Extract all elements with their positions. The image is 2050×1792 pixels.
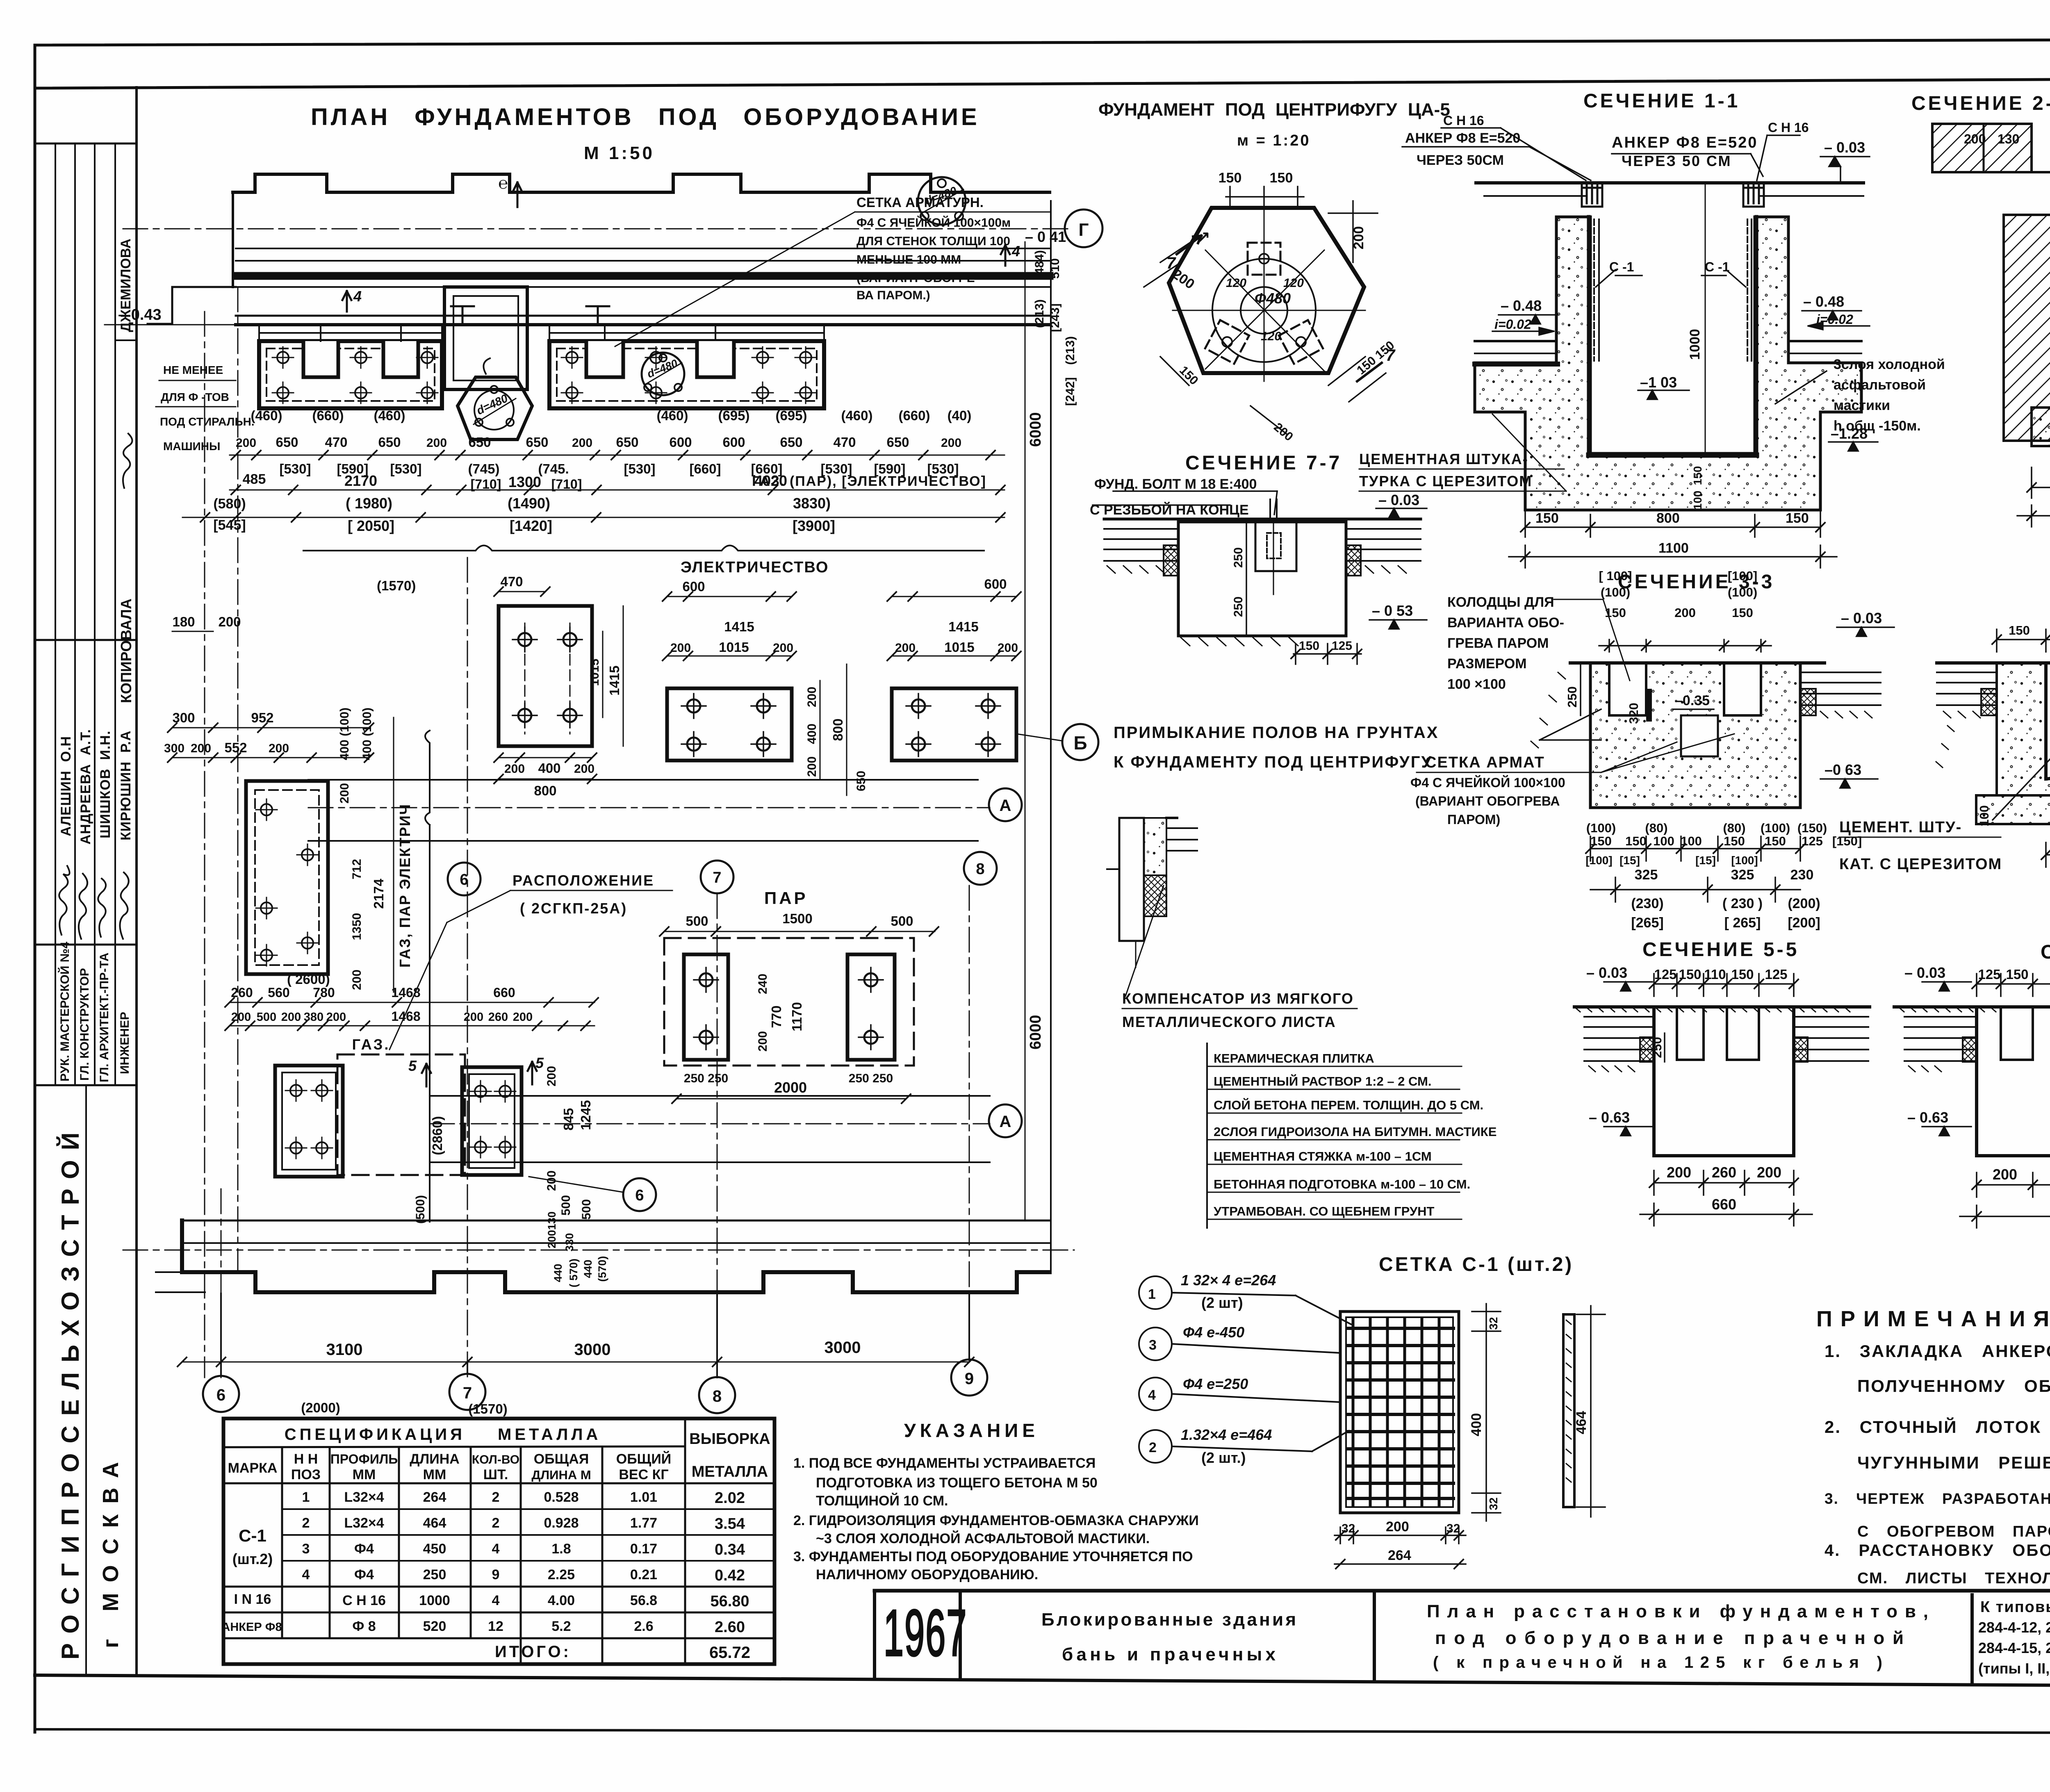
svg-text:500: 500 (686, 913, 708, 929)
svg-text:2174: 2174 (371, 879, 386, 909)
svg-text:2.02: 2.02 (715, 1489, 745, 1507)
svg-text:ПРИМЫКАНИЕ ПОЛОВ НА ГРУНТАХ: ПРИМЫКАНИЕ ПОЛОВ НА ГРУНТАХ (1114, 724, 1439, 742)
content frame bottom (35, 1675, 2050, 1687)
svg-text:ОБЩИЙ: ОБЩИЙ (616, 1451, 671, 1467)
svg-text:800: 800 (534, 783, 556, 798)
Г axis circle (1065, 209, 1102, 247)
svg-text:150: 150 (1691, 466, 1704, 485)
d=480 circle top right (918, 177, 966, 225)
svg-text:АНКЕР Ф8 Е=520: АНКЕР Ф8 Е=520 (1612, 134, 1758, 151)
svg-text:200: 200 (338, 783, 351, 804)
svg-text:– 0.03: – 0.03 (1824, 139, 1865, 156)
left wall + base (1997, 663, 2050, 795)
svg-text:ПОЛУЧЕННОМУ ОБОРУДОВАНИЮ.: ПОЛУЧЕННОМУ ОБОРУДОВАНИЮ. (1857, 1376, 2050, 1396)
svg-text:– 0.03: – 0.03 (1586, 964, 1627, 981)
svg-text:845: 845 (561, 1108, 576, 1130)
svg-text:3. ЧЕРТЕЖ РАЗРАБОТАН ДЛЯ ОБ: 3. ЧЕРТЕЖ РАЗРАБОТАН ДЛЯ ОБОРУДОВАНИЯ ПР… (1824, 1490, 2050, 1507)
svg-text:ЦЕМЕНТНЫЙ РАСТВОР 1:2 –: ЦЕМЕНТНЫЙ РАСТВОР 1:2 – 2 СМ. (1214, 1074, 1431, 1088)
svg-text:КАТ. С ЦЕРЕЗИТОМ: КАТ. С ЦЕРЕЗИТОМ (1839, 856, 2002, 873)
svg-text:[545]: [545] (213, 517, 246, 533)
svg-text:ЦЕМЕНТНАЯ СТЯЖКА м-100 –: ЦЕМЕНТНАЯ СТЯЖКА м-100 – 1СМ (1214, 1149, 1432, 1164)
svg-text:12: 12 (488, 1619, 503, 1634)
svg-text:ФУНД. БОЛТ М 18 Е:400: ФУНД. БОЛТ М 18 Е:400 (1094, 476, 1257, 492)
svg-text:1245: 1245 (578, 1100, 593, 1130)
svg-text:264: 264 (1388, 1548, 1411, 1563)
svg-text:(660): (660) (898, 408, 930, 423)
floor slab top (1476, 181, 1863, 184)
svg-text:200: 200 (1993, 1166, 2017, 1183)
svg-text:РОСГИПРОСЕЛЬХОЗСТРОЙ: РОСГИПРОСЕЛЬХОЗСТРОЙ (57, 1123, 84, 1660)
svg-text:100: 100 (1977, 805, 1991, 827)
svg-text:асфальтовой: асфальтовой (1834, 377, 1926, 393)
svg-text:650: 650 (780, 435, 802, 450)
lines + А axis (430, 1095, 990, 1097)
svg-text:320: 320 (1626, 703, 1641, 724)
svg-text:Ф 8: Ф 8 (352, 1619, 376, 1634)
svg-text:450: 450 (423, 1541, 446, 1557)
svg-text:1468: 1468 (391, 1009, 420, 1024)
svg-text:Ф480: Ф480 (1255, 290, 1291, 307)
svg-text:0.528: 0.528 (544, 1489, 579, 1505)
dims below (1590, 836, 1800, 902)
svg-text:I N 16: I N 16 (234, 1592, 271, 1607)
rect A (499, 606, 592, 746)
svg-text:485: 485 (243, 471, 266, 487)
svg-text:К типовым проект.: К типовым проект. (1980, 1598, 2050, 1616)
svg-text:150: 150 (1535, 510, 1559, 526)
svg-text:(100): (100) (1728, 585, 1757, 599)
сетка арматурн label (856, 195, 1011, 302)
svg-text:2. ГИДРОИЗОЛЯЦИЯ ФУНДАМЕНТОВ-О: 2. ГИДРОИЗОЛЯЦИЯ ФУНДАМЕНТОВ-ОБМАЗКА СНА… (793, 1513, 1199, 1528)
svg-text:ЧЕРЕЗ 50 СМ: ЧЕРЕЗ 50 СМ (1622, 153, 1731, 169)
svg-text:ОБЩАЯ: ОБЩАЯ (534, 1451, 589, 1467)
svg-text:284-4-12, 284-4-13, 284-3-14,: 284-4-12, 284-4-13, 284-3-14, (1978, 1619, 2050, 1636)
svg-text:2000: 2000 (774, 1079, 807, 1096)
side bar (1563, 1314, 1574, 1507)
svg-text:952: 952 (251, 710, 273, 725)
svg-text:(ВАРИАНТ ОБОГРЕВА: (ВАРИАНТ ОБОГРЕВА (1415, 794, 1560, 808)
dims below (2046, 842, 2050, 867)
svg-text:3: 3 (1149, 1337, 1157, 1353)
svg-text:2.6: 2.6 (634, 1619, 653, 1634)
svg-text:[150]: [150] (1832, 834, 1862, 848)
svg-text:2. СТОЧНЫЙ ЛОТОК ПЕРЕКРЫВ: 2. СТОЧНЫЙ ЛОТОК ПЕРЕКРЫВАЕТСЯ СЪЕМНЫМИ (1824, 1417, 2050, 1437)
svg-text:200: 200 (941, 436, 961, 450)
svg-text:1.01: 1.01 (630, 1489, 657, 1505)
svg-text:ГАЗ. (ПАР), [ЭЛЕКТРИЧЕСТВО]: ГАЗ. (ПАР), [ЭЛЕКТРИЧЕСТВО] (752, 474, 986, 489)
svg-text:(150): (150) (1797, 821, 1827, 835)
svg-text:200: 200 (513, 1011, 533, 1024)
svg-text:ДЛЯ Ф -ТОВ: ДЛЯ Ф -ТОВ (161, 391, 229, 403)
svg-text:200: 200 (426, 436, 447, 450)
svg-text:С Н 16: С Н 16 (342, 1593, 386, 1608)
svg-text:h общ -150м.: h общ -150м. (1834, 418, 1921, 434)
svg-text:(40): (40) (948, 408, 972, 423)
svg-text:А: А (1000, 797, 1011, 815)
svg-text:100: 100 (1653, 834, 1674, 848)
rect C (892, 688, 1016, 761)
svg-text:ГЛ. КОНСТРУКТОР: ГЛ. КОНСТРУКТОР (78, 968, 91, 1081)
svg-text:ПОД СТИРАЛЬН.: ПОД СТИРАЛЬН. (160, 415, 255, 428)
content frame top (35, 78, 2050, 88)
svg-text:0.21: 0.21 (630, 1567, 657, 1583)
svg-text:2.60: 2.60 (715, 1619, 745, 1636)
floor layers left/right (1937, 672, 2050, 705)
svg-text:(80): (80) (1645, 821, 1667, 835)
svg-text:0.42: 0.42 (715, 1567, 745, 1584)
section 7 arrows (1177, 236, 1382, 381)
svg-text:440: 440 (552, 1264, 564, 1282)
svg-text:1415: 1415 (724, 619, 754, 634)
wall lines (236, 248, 1050, 249)
svg-text:ГАЗ.: ГАЗ. (352, 1036, 390, 1053)
svg-text:5: 5 (408, 1057, 417, 1074)
svg-text:1.32×4 е=464: 1.32×4 е=464 (1181, 1426, 1272, 1443)
svg-text:400 (100): 400 (100) (338, 708, 351, 760)
svg-text:200: 200 (773, 641, 793, 655)
svg-text:НЕ МЕНЕЕ: НЕ МЕНЕЕ (163, 364, 223, 376)
svg-text:[710]: [710] (551, 477, 582, 492)
callouts (1139, 1276, 1351, 1463)
svg-text:7: 7 (1166, 254, 1176, 272)
svg-text:6: 6 (216, 1386, 225, 1404)
svg-text:1: 1 (1148, 1287, 1156, 1302)
svg-text:0.17: 0.17 (630, 1541, 657, 1557)
svg-text:470: 470 (833, 435, 856, 450)
svg-text:1170: 1170 (789, 1002, 804, 1031)
svg-text:200: 200 (572, 436, 592, 450)
svg-text:464: 464 (423, 1515, 446, 1531)
svg-text:– 0.03: – 0.03 (1378, 492, 1419, 508)
svg-text:– 0.43: – 0.43 (118, 306, 162, 323)
svg-text:400: 400 (538, 761, 560, 776)
svg-text:МЕТАЛЛА: МЕТАЛЛА (692, 1463, 768, 1480)
svg-text:[ 100]: [ 100] (1599, 569, 1632, 583)
svg-text:Н Н: Н Н (294, 1451, 318, 1467)
C-1 mesh in walls (1593, 219, 1595, 361)
svg-text:125: 125 (1802, 834, 1823, 848)
svg-text:Б: Б (1073, 732, 1087, 754)
svg-text:500: 500 (559, 1195, 573, 1216)
svg-text:( 570): ( 570) (567, 1259, 580, 1288)
svg-text:ПРИМЕЧАНИЯ: ПРИМЕЧАНИЯ (1816, 1307, 2050, 1331)
svg-text:i=0.02: i=0.02 (1816, 312, 1853, 327)
bolt recess (1255, 522, 1296, 571)
svg-text:200: 200 (1964, 132, 1986, 146)
svg-text:КОЛОДЦЫ ДЛЯ: КОЛОДЦЫ ДЛЯ (1447, 594, 1554, 610)
svg-text:(213): (213) (1033, 299, 1046, 328)
svg-text:( 2600): ( 2600) (287, 972, 330, 987)
svg-text:7: 7 (1386, 346, 1396, 364)
svg-text:ММ: ММ (353, 1467, 376, 1482)
left tall rect (246, 781, 328, 974)
svg-text:–0.35: –0.35 (1675, 693, 1710, 708)
svg-text:(100): (100) (1586, 821, 1616, 835)
svg-text:5: 5 (535, 1054, 544, 1071)
svg-text:56.80: 56.80 (710, 1593, 749, 1610)
svg-text:НАЛИЧНОМУ ОБОРУДОВАНИЮ.: НАЛИЧНОМУ ОБОРУДОВАНИЮ. (816, 1567, 1038, 1583)
svg-text:ПЛАН ФУНДАМЕНТОВ ПОД ОБОРУДОВА: ПЛАН ФУНДАМЕНТОВ ПОД ОБОРУДОВАНИЕ (311, 104, 980, 130)
svg-text:мастики: мастики (1834, 398, 1890, 413)
dims above (1997, 627, 2050, 788)
wall left lower edge step (148, 287, 236, 324)
svg-text:( 2СГКП-25А): ( 2СГКП-25А) (520, 900, 627, 917)
dims above (1540, 627, 1894, 788)
svg-text:2: 2 (1149, 1440, 1157, 1455)
svg-text:[660]: [660] (689, 461, 721, 476)
svg-text:1000: 1000 (1687, 329, 1703, 360)
svg-text:ЧЕРЕЗ 50СМ: ЧЕРЕЗ 50СМ (1417, 153, 1504, 168)
svg-text:200: 200 (756, 1031, 770, 1052)
svg-text:200: 200 (218, 614, 241, 629)
svg-text:С-1: С-1 (239, 1526, 266, 1545)
svg-text:ИНЖЕНЕР: ИНЖЕНЕР (118, 1012, 132, 1074)
svg-text:1350: 1350 (350, 913, 364, 940)
anchor channels (1582, 183, 1764, 207)
svg-text:1. ЗАКЛАДКА АНКЕРОВ УТОЧ: 1. ЗАКЛАДКА АНКЕРОВ УТОЧНЯЕТСЯ ПО (1824, 1341, 2050, 1361)
svg-text:200: 200 (1351, 226, 1367, 250)
svg-text:600: 600 (984, 576, 1007, 592)
svg-text:0.928: 0.928 (544, 1515, 579, 1531)
axis Г dash-dot (123, 228, 1070, 230)
svg-text:712: 712 (350, 859, 364, 879)
svg-text:1. ПОД ВСЕ ФУНДАМЕНТЫ УСТРАИВА: 1. ПОД ВСЕ ФУНДАМЕНТЫ УСТРАИВАЕТСЯ (793, 1455, 1096, 1471)
svg-text:– 0.63: – 0.63 (1589, 1109, 1630, 1126)
svg-text:500: 500 (580, 1199, 593, 1220)
svg-text:56.8: 56.8 (630, 1593, 657, 1608)
svg-text:2: 2 (492, 1489, 500, 1505)
svg-text:150: 150 (1724, 834, 1745, 848)
svg-text:9: 9 (965, 1370, 974, 1388)
svg-text:АЛЕШИН О.Н: АЛЕШИН О.Н (58, 736, 74, 836)
outer border bottom (35, 1729, 2050, 1733)
газ dashed rect + solid rects (337, 1054, 465, 1175)
plan right edge + 6000 dim (1050, 201, 1052, 1271)
svg-text:150: 150 (1299, 639, 1319, 653)
svg-text:560: 560 (268, 985, 289, 1000)
svg-text:7: 7 (463, 1384, 472, 1402)
dims around electric (499, 592, 1016, 795)
svg-text:ТОЛЩИНОЙ 10 СМ.: ТОЛЩИНОЙ 10 СМ. (816, 1493, 948, 1509)
svg-text:200: 200 (236, 436, 256, 450)
svg-text:260: 260 (488, 1011, 508, 1024)
mid circles (448, 863, 481, 895)
svg-text:770: 770 (769, 1005, 784, 1028)
svg-text:С -1: С -1 (1609, 260, 1634, 274)
svg-text:1415: 1415 (948, 619, 978, 634)
svg-text:С ОБОГРЕВОМ ПАРОМ И ГАЗОМ: С ОБОГРЕВОМ ПАРОМ И ГАЗОМ, ЭЛЕКТРИЧЕСТВО… (1857, 1523, 2050, 1540)
section 4 marks (342, 291, 351, 312)
svg-text:1.8: 1.8 (551, 1541, 571, 1557)
svg-text:1015: 1015 (944, 640, 974, 655)
svg-text:250: 250 (1232, 547, 1245, 568)
svg-text:4. РАССТАНОВКУ ОБОРУДОВАНИЯ: 4. РАССТАНОВКУ ОБОРУДОВАНИЯ НА 3 ВАРИАНТ… (1824, 1542, 2050, 1560)
svg-text:650: 650 (616, 435, 638, 450)
svg-text:650: 650 (886, 435, 909, 450)
svg-text:200: 200 (1386, 1519, 1409, 1535)
svg-text:2170: 2170 (344, 472, 377, 489)
svg-text:(660): (660) (312, 408, 344, 423)
svg-text:ТУРКА С ЦЕРЕЗИТОМ: ТУРКА С ЦЕРЕЗИТОМ (1359, 473, 1532, 490)
vertical axes dash-dot (467, 558, 468, 1378)
svg-text:440: 440 (582, 1259, 594, 1278)
svg-text:под оборудование прачечной: под оборудование прачечной (1435, 1628, 1906, 1648)
svg-text:i=0.02: i=0.02 (1494, 317, 1531, 332)
svg-text:250: 250 (423, 1567, 446, 1583)
svg-text:(ВАРИАНТ ОБОГРЕ-: (ВАРИАНТ ОБОГРЕ- (856, 271, 979, 285)
svg-text:[100]: [100] (1731, 854, 1758, 867)
svg-text:6000: 6000 (1027, 412, 1044, 447)
svg-text:М 1:50: М 1:50 (584, 143, 655, 163)
section mark 2 at top (512, 182, 522, 207)
svg-text:4: 4 (353, 288, 362, 305)
svg-text:(460): (460) (656, 408, 688, 423)
svg-text:ФУНДАМЕНТ ПОД ЦЕНТРИФУГУ ЦА-5: ФУНДАМЕНТ ПОД ЦЕНТРИФУГУ ЦА-5 (1098, 100, 1450, 120)
svg-text:250: 250 (1565, 686, 1579, 708)
расположение (512, 872, 654, 917)
right floor layers (1800, 672, 1881, 705)
Б leader (1016, 734, 1062, 741)
svg-text:3100: 3100 (326, 1341, 363, 1359)
svg-text:К ФУНДАМЕНТУ ПОД ЦЕНТРИФУГУ: К ФУНДАМЕНТУ ПОД ЦЕНТРИФУГУ (1114, 753, 1433, 771)
top edge with pilasters (233, 174, 1050, 192)
svg-text:1 32× 4 е=264: 1 32× 4 е=264 (1181, 1272, 1276, 1289)
svg-text:520: 520 (423, 1619, 446, 1634)
не менее label (160, 364, 255, 453)
svg-text:120: 120 (1261, 330, 1281, 343)
svg-text:(570): (570) (596, 1256, 608, 1282)
svg-text:240: 240 (756, 974, 770, 994)
svg-text:(460): (460) (841, 408, 872, 423)
svg-text:С Н 16: С Н 16 (1768, 120, 1809, 135)
svg-text:ДЛИНА: ДЛИНА (410, 1451, 460, 1467)
svg-text:780: 780 (313, 985, 335, 1000)
floor layers left (1584, 1017, 1868, 1061)
svg-text:3: 3 (302, 1541, 310, 1557)
svg-text:32: 32 (1487, 1317, 1500, 1330)
svg-text:БЕТОННАЯ ПОДГОТОВКА м-100: БЕТОННАЯ ПОДГОТОВКА м-100 – 10 СМ. (1214, 1177, 1470, 1191)
svg-text:(460): (460) (251, 408, 282, 423)
svg-text:Блокированные здания: Блокированные здания (1041, 1610, 1300, 1630)
svg-text:1100: 1100 (1658, 540, 1689, 556)
svg-text:[710]: [710] (471, 477, 501, 492)
svg-text:200: 200 (1674, 606, 1696, 620)
svg-text:(100): (100) (1761, 821, 1790, 835)
right side rotated dims (1033, 250, 1077, 406)
svg-text:( 230 ): ( 230 ) (1722, 896, 1763, 911)
svg-text:АНКЕР Ф8 Е=520: АНКЕР Ф8 Е=520 (1405, 130, 1520, 146)
vertical dim 1000 (1705, 183, 1706, 453)
svg-text:200: 200 (545, 1066, 558, 1086)
svg-text:СЕЧЕНИЕ 6-6: СЕЧЕНИЕ 6-6 (2041, 941, 2050, 963)
svg-text:200: 200 (998, 641, 1018, 655)
svg-text:150: 150 (1731, 967, 1754, 982)
svg-text:СЛОЙ БЕТОНА ПЕРЕМ. ТОЛЩИН. Д: СЛОЙ БЕТОНА ПЕРЕМ. ТОЛЩИН. ДО 5 СМ. (1214, 1098, 1483, 1112)
grid dims (182, 1362, 969, 1363)
svg-text:650: 650 (378, 435, 401, 450)
svg-text:[530]: [530] (279, 461, 311, 476)
svg-text:– 0.03: – 0.03 (1841, 610, 1882, 626)
svg-text:1015: 1015 (588, 659, 601, 686)
svg-text:4: 4 (492, 1541, 500, 1557)
svg-text:150: 150 (1786, 510, 1809, 526)
svg-text:РУК. МАСТЕРСКОЙ №4: РУК. МАСТЕРСКОЙ №4 (58, 942, 72, 1082)
svg-text:[1420]: [1420] (510, 517, 552, 534)
svg-text:125: 125 (1332, 639, 1352, 653)
svg-text:2.25: 2.25 (548, 1567, 575, 1583)
svg-text:ДЛИНА М: ДЛИНА М (531, 1468, 591, 1482)
svg-text:4.00: 4.00 (548, 1593, 575, 1608)
svg-text:264: 264 (423, 1489, 446, 1505)
svg-text:3слоя холодной: 3слоя холодной (1834, 357, 1945, 372)
svg-text:150: 150 (2009, 623, 2030, 638)
svg-text:– 0.48: – 0.48 (1803, 293, 1844, 310)
svg-text:ЦЕМЕНТ. ШТУ-: ЦЕМЕНТ. ШТУ- (1839, 819, 1962, 836)
svg-text:ПАР: ПАР (764, 888, 808, 908)
svg-text:( 1980): ( 1980) (346, 495, 392, 512)
svg-text:ШТ.: ШТ. (483, 1467, 508, 1482)
svg-text:(200): (200) (1788, 896, 1820, 911)
horizontal lines + А axis (308, 779, 978, 781)
svg-text:200: 200 (670, 641, 691, 655)
svg-text:(80): (80) (1723, 821, 1745, 835)
svg-text:ВАРИАНТА ОБО-: ВАРИАНТА ОБО- (1447, 615, 1564, 631)
svg-text:Ф4 е-450: Ф4 е-450 (1183, 1324, 1244, 1341)
svg-text:200: 200 (805, 687, 819, 707)
svg-text:(213): (213) (1064, 336, 1077, 365)
svg-text:Ф4: Ф4 (354, 1541, 374, 1557)
svg-text:100: 100 (1691, 491, 1704, 510)
svg-text:200: 200 (231, 1011, 251, 1024)
svg-text:– 0.03: – 0.03 (1904, 964, 1945, 981)
svg-text:Ф4: Ф4 (354, 1567, 374, 1583)
svg-text:СЕЧЕНИЕ 1-1: СЕЧЕНИЕ 1-1 (1583, 90, 1740, 112)
svg-text:552: 552 (224, 740, 247, 755)
svg-text:– 0 41: – 0 41 (1025, 228, 1066, 245)
svg-text:800: 800 (830, 718, 845, 741)
svg-text:5.2: 5.2 (551, 1619, 571, 1634)
svg-text:– 0.48: – 0.48 (1501, 297, 1542, 314)
svg-text:(580): (580) (213, 496, 246, 512)
svg-text:1500: 1500 (782, 911, 812, 926)
svg-text:[ 2050]: [ 2050] (348, 517, 394, 534)
svg-text:325: 325 (1731, 867, 1754, 883)
pit box between groups (444, 287, 527, 389)
svg-text:План расстановки фундаментов: План расстановки фундаментов, (1427, 1601, 1931, 1621)
svg-text:ВА ПАРОМ.): ВА ПАРОМ.) (856, 289, 930, 302)
svg-text:200: 200 (464, 1011, 483, 1024)
svg-text:464: 464 (1574, 1411, 1589, 1435)
svg-text:8: 8 (713, 1387, 722, 1405)
svg-text:м = 1:20: м = 1:20 (1237, 132, 1310, 149)
svg-text:[200]: [200] (1788, 915, 1820, 931)
svg-text:КИРЮШИН Р.А: КИРЮШИН Р.А (118, 730, 134, 840)
svg-text:0.34: 0.34 (715, 1541, 745, 1558)
svg-text:МАШИНЫ: МАШИНЫ (163, 440, 220, 453)
svg-text:(1490): (1490) (508, 495, 550, 512)
svg-text:ГЛ. АРХИТЕКТ.-ПР-ТА: ГЛ. АРХИТЕКТ.-ПР-ТА (98, 953, 111, 1082)
dims above left rect (172, 631, 369, 758)
dim lines bottom (1509, 508, 1837, 568)
svg-text:СЕЧЕНИЕ 7-7: СЕЧЕНИЕ 7-7 (1185, 452, 1342, 474)
svg-text:ИТОГО:: ИТОГО: (495, 1643, 571, 1661)
waterproof thick lines (1475, 362, 1558, 367)
svg-text:Г: Г (1079, 220, 1089, 240)
svg-text:230: 230 (1790, 867, 1814, 883)
svg-text:– 0 53: – 0 53 (1372, 602, 1413, 619)
svg-text:ЧУГУННЫМИ РЕШЕТКАМИ.: ЧУГУННЫМИ РЕШЕТКАМИ. (1857, 1453, 2050, 1472)
svg-text:1967: 1967 (884, 1596, 968, 1669)
